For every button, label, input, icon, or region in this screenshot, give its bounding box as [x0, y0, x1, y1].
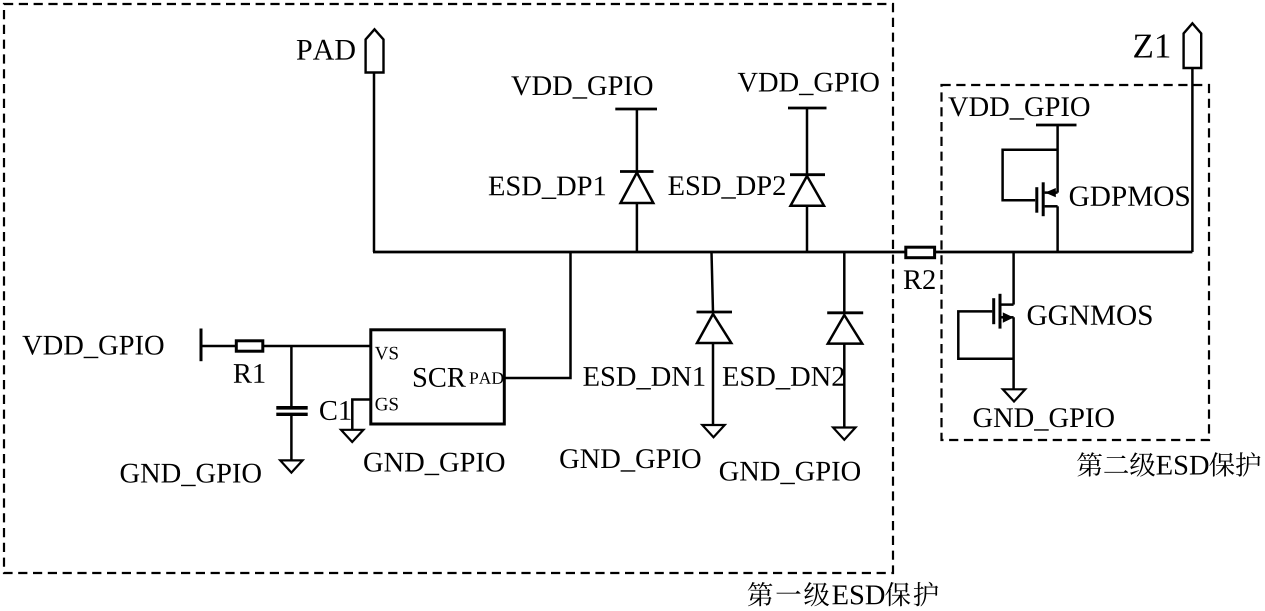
label VDD_GPIO net 2: [738, 73, 879, 96]
transistor GGNMOS gate bar: [992, 298, 995, 324]
resistor R1: [236, 341, 262, 351]
diode ESD_DP2 triangle: [791, 176, 825, 206]
pin label GS: [375, 398, 397, 411]
caption second-stage ESD protection: 第二级ESD保护: [1077, 452, 1260, 477]
wire bus left: [373, 251, 906, 254]
wire Z1 to bus: [1191, 68, 1194, 252]
transistor GDPMOS channel bar: [1042, 182, 1045, 216]
capacitor C1 top plate: [276, 406, 307, 410]
transistor GDPMOS gate bar: [1035, 187, 1038, 213]
ground ESD_DN2: [833, 428, 855, 440]
label C1: [320, 401, 350, 420]
wire ESD_DP1 to bus: [636, 203, 639, 252]
label GND_GPIO net C1: [121, 464, 261, 487]
wire VDD bar to diode ESD_DP2: [806, 108, 809, 175]
diode ESD_DP1 cathode bar: [620, 170, 654, 173]
transistor GGNMOS drain line: [1001, 303, 1014, 306]
ground GGNMOS: [1003, 389, 1025, 401]
wire SCR PAD output to bus: [504, 253, 571, 378]
ground C1: [280, 460, 302, 472]
pin PAD: [366, 29, 384, 72]
diode ESD_DN1 triangle: [697, 314, 731, 343]
label R2: [904, 270, 935, 289]
transistor GDPMOS source line: [1045, 191, 1058, 194]
wire PAD to bus: [373, 73, 376, 253]
diode ESD_DP1 triangle: [621, 173, 654, 204]
wire bus right: [935, 251, 1192, 254]
ground GS: [341, 430, 363, 442]
wire C1 to ground: [290, 416, 293, 460]
pin label PAD small: [470, 372, 504, 384]
wire ESD_DP2 to bus: [806, 206, 809, 252]
label GGNMOS: [1028, 305, 1152, 325]
label SCR: [414, 368, 466, 387]
transistor GDPMOS drain line: [1045, 205, 1058, 208]
caption first-stage ESD protection: 第一级ESD保护: [748, 582, 938, 607]
diode ESD_DN2 cathode bar: [827, 311, 863, 314]
resistor R2: [906, 247, 935, 258]
wire ESD_DN1 to ground: [712, 343, 715, 425]
wire GGNMOS source to ground: [1012, 317, 1015, 389]
wire ESD_DN2 to ground: [843, 344, 846, 427]
transistor GGNMOS source line: [1001, 316, 1014, 319]
diode ESD_DN1 cathode bar: [697, 311, 733, 314]
power bar VDD_GPIO stage2: [1036, 124, 1077, 127]
ground ESD_DN1: [702, 425, 724, 437]
wire VDD bar to GDPMOS source: [1056, 125, 1059, 193]
diode ESD_DP2 cathode bar: [790, 173, 825, 176]
pin label VS: [375, 347, 398, 360]
wire bus to diode ESD_DN2: [843, 252, 846, 313]
power bar VDD_GPIO 1: [615, 108, 657, 111]
transistor GGNMOS channel bar: [999, 294, 1002, 329]
wire GDPMOS gate loop: [1003, 150, 1058, 200]
wire bus to GGNMOS drain: [1012, 252, 1015, 305]
diode ESD_DN2 triangle: [828, 315, 862, 344]
label GND_GPIO net DN1: [560, 449, 700, 472]
wire junction down to C1: [290, 346, 293, 406]
wire bus to diode ESD_DN1: [712, 252, 714, 312]
terminal tick VDD_GPIO left: [200, 329, 203, 362]
label R1: [234, 364, 265, 383]
label GND_GPIO net DN2: [720, 462, 860, 485]
label VDD_GPIO net 1: [511, 76, 652, 99]
SCR block U1: [371, 330, 505, 424]
label Z1: [1134, 34, 1169, 57]
label GND_GPIO net stage2: [974, 408, 1114, 431]
label VDD_GPIO net left: [22, 336, 163, 359]
wire GGNMOS gate loop: [958, 311, 1013, 358]
label ESD_DP2: [668, 176, 784, 199]
pin Z1: [1184, 23, 1202, 68]
label GDPMOS: [1070, 186, 1189, 206]
power bar VDD_GPIO 2: [788, 107, 827, 110]
second-stage dashed box: [942, 85, 1210, 440]
label ESD_DN2: [723, 367, 844, 390]
wire VDD terminal to SCR VS: [201, 345, 371, 348]
transistor GGNMOS arrow: [1003, 312, 1014, 322]
label ESD_DN1: [583, 367, 704, 390]
first-stage dashed box: [4, 4, 893, 573]
label PAD top: [297, 40, 355, 60]
label VDD_GPIO stage2: [948, 97, 1089, 120]
label GND_GPIO net SCR: [364, 453, 504, 476]
transistor GDPMOS arrow: [1045, 188, 1056, 197]
capacitor C1 bottom plate: [276, 413, 307, 416]
wire VDD bar to diode ESD_DP1: [636, 109, 639, 172]
wire SCR GS to ground: [352, 400, 371, 430]
wire GDPMOS drain to bus: [1056, 206, 1059, 252]
label ESD_DP1: [489, 176, 605, 199]
